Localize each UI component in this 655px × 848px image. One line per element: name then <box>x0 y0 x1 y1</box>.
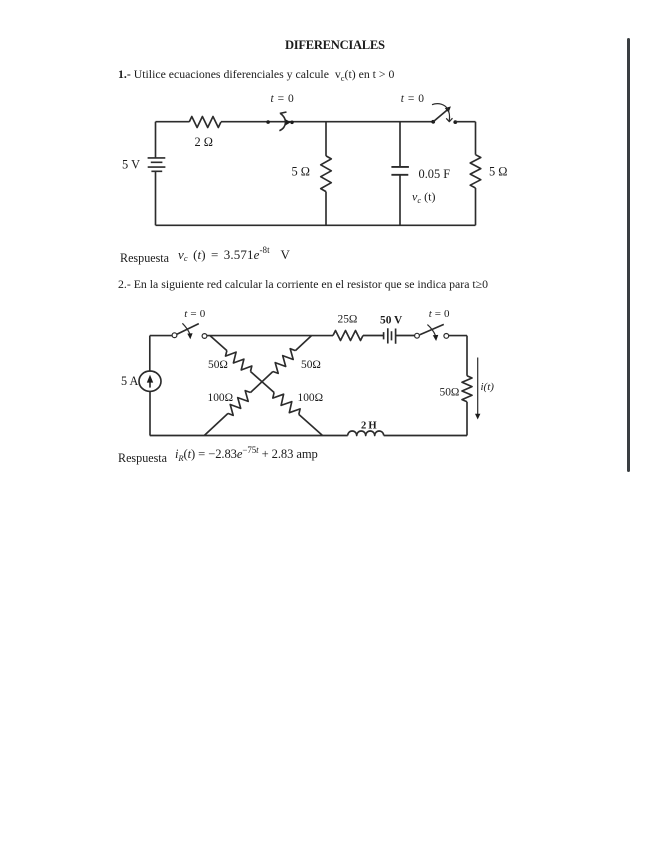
wire C1 left vertical upper <box>155 122 157 158</box>
resistor R 5ohm right zigzag <box>470 155 481 188</box>
svg-text:5 V: 5 V <box>122 157 140 171</box>
wire C2 top-right segment <box>449 335 467 337</box>
switch S2 blade <box>433 110 447 122</box>
svg-text:100Ω: 100Ω <box>298 392 324 404</box>
svg-text:100Ω: 100Ω <box>208 392 234 404</box>
bridge diagonal BR wire lead <box>299 414 323 435</box>
answer 1 label <box>120 252 169 264</box>
resistor R 50ohm bridge-right zigzag <box>273 349 296 374</box>
svg-text:5 A: 5 A <box>121 374 138 388</box>
wire C2 right vertical lower <box>466 402 468 436</box>
switch S3 blade <box>177 324 199 335</box>
title DIFERENCIALES <box>285 39 385 52</box>
switch S1 arrowhead <box>286 119 291 125</box>
wire C1 top-right segment <box>455 121 475 123</box>
switch S4 closing arc <box>427 325 435 336</box>
wire C2 bottom-right segment <box>384 435 467 437</box>
resistor R 50ohm right zigzag <box>462 376 472 402</box>
svg-text:50Ω: 50Ω <box>208 359 228 371</box>
switch S2 pivot dot <box>431 120 435 124</box>
switch S2 right node dot <box>453 120 457 124</box>
switch S4 arrowhead <box>433 335 439 341</box>
svg-text:t = 0: t = 0 <box>184 308 206 320</box>
svg-text:25Ω: 25Ω <box>338 313 358 325</box>
inductor L 2H coils <box>348 431 384 436</box>
svg-text:2 H: 2 H <box>361 420 377 431</box>
wire C2 battery right lead <box>396 335 415 337</box>
current source I1 arrowhead <box>147 375 153 383</box>
svg-text:t = 0: t = 0 <box>271 93 295 105</box>
wire C1 capacitor branch lower <box>399 175 401 225</box>
svg-text:5 Ω: 5 Ω <box>489 164 508 178</box>
battery V1 5V plates <box>148 158 166 171</box>
switch S3 arrowhead <box>187 333 192 339</box>
svg-text:5 Ω: 5 Ω <box>292 164 311 178</box>
svg-text:0.05 F: 0.05 F <box>419 167 451 181</box>
switch S2 blade arrowhead <box>445 106 451 112</box>
resistor R 100ohm bridge-left zigzag <box>228 391 251 416</box>
switch S3 right terminal circle <box>202 334 207 339</box>
wire C2 top middle segment <box>207 335 333 337</box>
current source I1 arrow <box>149 379 151 388</box>
resistor R 25ohm zigzag <box>333 331 363 341</box>
answer 1 formula <box>178 248 290 261</box>
problem 2 statement <box>118 279 488 291</box>
switch S1 left node dot <box>266 120 270 124</box>
capacitor C 0.05F plates <box>391 167 409 175</box>
current arrow i(t) shaft <box>477 358 479 416</box>
wire C1 left vertical lower <box>155 171 157 225</box>
current source I1 circle <box>139 371 161 391</box>
bridge diagonal TL wire lead <box>210 336 227 351</box>
answer 2 label <box>118 452 167 464</box>
switch S3 left terminal circle <box>172 333 177 338</box>
resistor R 2ohm zigzag <box>189 117 221 128</box>
svg-text:2 Ω: 2 Ω <box>195 135 214 149</box>
bridge diagonal TR-BL middle wire <box>251 372 273 393</box>
wire C1 right vertical lower <box>475 188 477 225</box>
wire C2 left vertical upper <box>149 336 151 371</box>
wire C1 mid branch lower <box>325 192 327 226</box>
wire C1 top-middle segment <box>221 121 433 123</box>
wire C2 battery left lead <box>363 335 384 337</box>
wire C1 right vertical upper <box>475 122 477 155</box>
wire C2 left vertical lower <box>149 391 151 435</box>
bridge diagonal BL wire lead <box>204 413 228 435</box>
bridge diagonal TL-BR middle wire <box>251 372 275 393</box>
resistor R 100ohm bridge-right zigzag <box>273 393 300 415</box>
bridge diagonal TR wire lead <box>295 336 311 351</box>
answer 2 formula <box>175 448 318 461</box>
resistor R 5ohm middle zigzag <box>321 156 332 192</box>
wire C1 capacitor branch upper <box>399 122 401 167</box>
wire C2 right vertical upper <box>466 336 468 376</box>
problem 1 statement <box>118 69 394 81</box>
svg-text:50Ω: 50Ω <box>440 387 460 399</box>
svg-text:vc (t): vc (t) <box>412 189 435 205</box>
battery V2 50V plates <box>384 328 396 343</box>
switch S2 closing arc arrow <box>432 104 453 122</box>
wire C1 top-left segment <box>156 121 190 123</box>
switch S4 right terminal circle <box>444 334 449 339</box>
wire C1 mid branch upper <box>325 122 327 156</box>
switch S1 right node dot <box>290 121 294 125</box>
wire C2 top-left segment <box>150 335 172 337</box>
page edge vertical line <box>627 38 630 472</box>
svg-text:50 V: 50 V <box>380 314 403 326</box>
switch S4 left terminal circle <box>415 333 420 338</box>
wire C2 bottom-left segment <box>150 435 348 437</box>
resistor R 50ohm bridge-left zigzag <box>226 351 252 372</box>
svg-text:t = 0: t = 0 <box>401 93 425 105</box>
svg-text:50Ω: 50Ω <box>301 359 321 371</box>
wire C1 bottom <box>156 224 476 226</box>
switch S1 opening-arc glyph <box>279 112 286 131</box>
switch S4 blade <box>420 324 444 334</box>
svg-text:t = 0: t = 0 <box>429 308 450 320</box>
svg-text:i(t): i(t) <box>481 381 495 393</box>
current arrow i(t) head <box>475 414 480 420</box>
switch S3 closing arc <box>182 323 190 334</box>
